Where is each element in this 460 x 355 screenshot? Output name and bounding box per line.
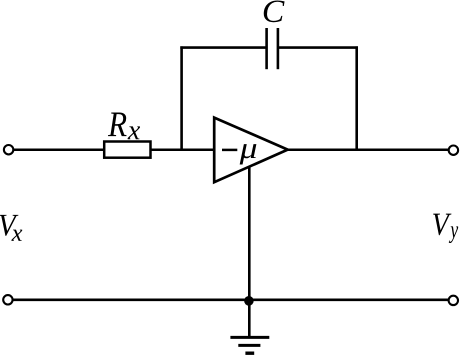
resistor Rx xyxy=(104,142,150,158)
label V of Vy xyxy=(433,214,451,236)
capacitor C right plate xyxy=(277,28,280,69)
capacitor C left plate xyxy=(265,28,268,69)
wire: op-amp output to right terminal xyxy=(287,149,448,152)
label R of Rx xyxy=(108,113,127,137)
wire: feedback right vertical xyxy=(355,46,358,150)
wire: feedback left vertical xyxy=(180,46,183,150)
terminal: bottom left xyxy=(3,295,12,304)
op-amp gain minus sign xyxy=(222,149,237,152)
op-amp gain mu label xyxy=(240,144,257,164)
ground bar 3 xyxy=(245,352,254,355)
wire: feedback top left segment xyxy=(180,46,266,49)
op-amp U1 triangle xyxy=(214,118,288,183)
label C xyxy=(264,1,285,23)
label V of Vx xyxy=(0,215,18,236)
junction dot ground node xyxy=(244,296,254,306)
label x subscript of Rx xyxy=(128,126,140,139)
ground bar 2 xyxy=(238,344,260,347)
wire: bottom rail xyxy=(13,298,448,301)
wire: input terminal to resistor xyxy=(14,149,105,152)
terminal: bottom right xyxy=(449,296,458,305)
wire: op-amp bottom to ground node xyxy=(248,166,251,337)
terminal: output Vy xyxy=(449,146,458,155)
terminal: input Vx xyxy=(4,145,13,154)
label y subscript of Vy xyxy=(449,226,458,243)
wire: feedback top right segment xyxy=(278,46,358,49)
wire: resistor to op-amp input xyxy=(151,149,214,152)
ground bar 1 xyxy=(230,336,269,339)
label x subscript of Vx xyxy=(11,230,22,241)
